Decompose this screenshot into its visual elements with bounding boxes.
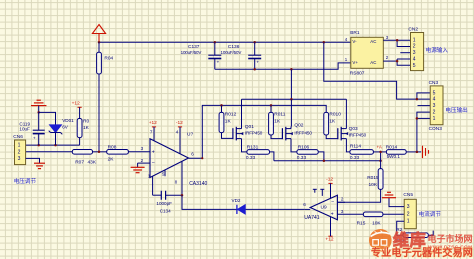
power VCC arrow — [98, 34, 100, 43]
diode VD2 — [236, 205, 238, 214]
svg-text:R04: R04 — [104, 56, 113, 62]
svg-text:3: 3 — [141, 146, 144, 151]
wire Q01 drain drop — [241, 99, 243, 126]
wire drain rail — [242, 98, 347, 100]
svg-text:V+: V+ — [352, 60, 358, 65]
svg-text:+12: +12 — [72, 101, 80, 107]
junction top rail to CN3 drop — [323, 41, 326, 44]
resistor R15 — [363, 212, 383, 217]
watermark logo ball — [369, 229, 392, 252]
junction drain rail at Q02 — [290, 98, 293, 101]
junction top rail at C137 — [214, 41, 217, 44]
wire ground to VD01 anode — [39, 112, 56, 125]
pin 5 stub U? — [164, 170, 166, 176]
resistor R2 — [403, 233, 428, 238]
svg-text:R114: R114 — [350, 144, 361, 150]
svg-text:CN6: CN6 — [13, 134, 23, 140]
wire reference node — [26, 144, 80, 146]
wire source common rail — [274, 160, 381, 162]
svg-text:CN5: CN5 — [403, 192, 413, 198]
wire Q03 drain drop — [345, 99, 347, 126]
junction top rail at C136 — [253, 41, 256, 44]
svg-text:3: 3 — [407, 204, 410, 210]
svg-text:2: 2 — [407, 211, 410, 217]
svg-text:2: 2 — [413, 44, 416, 50]
wire CN5 pin3 to ground — [389, 198, 404, 207]
junction U? output at riser — [201, 157, 203, 159]
resistor R015 — [378, 169, 383, 190]
svg-text:1: 1 — [413, 37, 416, 43]
junction C134 node — [181, 194, 184, 197]
resistor R08 — [107, 150, 129, 155]
svg-text:电压输出: 电压输出 — [445, 106, 467, 114]
svg-text:6: 6 — [191, 152, 194, 157]
svg-text:CN3: CN3 — [429, 80, 439, 86]
svg-text:UA741: UA741 — [304, 215, 320, 221]
resistor R012 — [221, 105, 223, 112]
svg-text:R15: R15 — [357, 220, 366, 226]
junction V+ rail feed to drains — [290, 68, 293, 71]
pin 8 stub U? — [181, 162, 183, 196]
svg-text:-12: -12 — [326, 177, 333, 183]
svg-text:维库: 维库 — [393, 231, 427, 250]
junction C119 bottom — [37, 144, 40, 147]
svg-text:R015: R015 — [367, 175, 379, 181]
svg-text:+: + — [33, 136, 36, 141]
pin 3 UA741 — [337, 213, 363, 215]
connector CN5 — [404, 199, 416, 228]
capacitor C136 — [254, 42, 256, 55]
svg-text:R106: R106 — [298, 145, 310, 151]
resistor R010 — [324, 112, 329, 135]
wire CN3 pins 1-2 tie — [417, 112, 430, 152]
junction output node at CN3 drop — [416, 151, 419, 154]
svg-text:3: 3 — [341, 209, 344, 214]
svg-text:+: + — [331, 212, 334, 218]
svg-text:+12: +12 — [149, 120, 157, 126]
connector CN2 — [411, 33, 424, 71]
svg-text:IRFP450: IRFP450 — [245, 130, 263, 135]
svg-text:6: 6 — [303, 202, 306, 207]
wire CN3 pin3 stub — [418, 105, 431, 107]
svg-text:4: 4 — [433, 97, 436, 103]
svg-text:IRFP450: IRFP450 — [349, 132, 367, 137]
svg-text:−: − — [331, 200, 334, 206]
pin 2 UA741 — [337, 201, 345, 203]
svg-text:10uF: 10uF — [19, 127, 30, 132]
wire V- top rail — [99, 41, 351, 43]
svg-text:1K: 1K — [225, 119, 232, 125]
svg-text:1: 1 — [407, 219, 410, 225]
svg-text:6V: 6V — [62, 125, 69, 130]
junction AC3 at CN2 — [396, 39, 399, 42]
junction AC2 at CN2 — [396, 60, 399, 63]
svg-text:Q01: Q01 — [245, 124, 254, 130]
svg-text:3: 3 — [18, 156, 21, 162]
junction R04 bottom node — [98, 151, 101, 154]
svg-text:5W0.1: 5W0.1 — [387, 154, 401, 159]
svg-text:R131: R131 — [247, 145, 259, 151]
svg-text:7: 7 — [150, 130, 153, 135]
wire CN5 pin1 to R2 — [397, 221, 405, 235]
junction top rail at R04 — [98, 41, 101, 44]
resistor R131 — [242, 141, 247, 152]
svg-text:0.33: 0.33 — [246, 155, 256, 161]
svg-text:2: 2 — [341, 197, 344, 202]
ground output reference (rotated) — [422, 146, 424, 158]
wire V- to CN3 pins 4-5 — [324, 42, 430, 99]
svg-text:1000pF: 1000pF — [156, 201, 172, 206]
svg-text:5: 5 — [433, 90, 436, 96]
svg-text:AC: AC — [370, 60, 376, 65]
svg-text:VD01: VD01 — [62, 118, 74, 123]
transistor Q02 — [281, 128, 283, 139]
svg-text:电流调节: 电流调节 — [419, 210, 442, 218]
connector CN6 — [15, 140, 26, 165]
ground at CN5 pin3 — [382, 197, 396, 199]
svg-text:BR1: BR1 — [350, 30, 360, 36]
svg-text:2: 2 — [141, 158, 144, 163]
svg-text:Q03: Q03 — [349, 126, 358, 132]
svg-text:-12: -12 — [176, 120, 183, 126]
svg-text:2: 2 — [18, 149, 21, 155]
svg-text:4: 4 — [413, 57, 416, 63]
wire V+ rail under caps — [215, 63, 351, 69]
transistor Q01 — [232, 128, 234, 139]
svg-text:1K: 1K — [274, 119, 281, 125]
svg-text:RS807: RS807 — [350, 71, 365, 77]
svg-text:1: 1 — [433, 116, 436, 122]
zener diode VD01 — [50, 125, 62, 132]
junction source rail at R106 — [323, 159, 326, 162]
svg-text:+: + — [152, 149, 155, 155]
wire CN2 pin3 stub — [400, 52, 410, 54]
resistor R106 — [291, 141, 297, 152]
ground at U? pin 2 — [138, 162, 150, 164]
svg-text:R014: R014 — [386, 144, 398, 150]
svg-text:100uF/50V: 100uF/50V — [181, 50, 202, 55]
junction ground split — [37, 111, 40, 114]
junction V+ rail at C136 — [253, 68, 256, 71]
svg-text:CON3: CON3 — [429, 126, 443, 132]
op-amp U1 CA3140 — [150, 139, 189, 178]
resistor R014 — [386, 150, 406, 155]
svg-text:IRFP450: IRFP450 — [294, 131, 312, 136]
pin 1 stub U? — [152, 176, 154, 195]
svg-text:R08: R08 — [108, 145, 117, 151]
wire gate rail from U? output — [189, 105, 327, 158]
capacitor C119 — [38, 112, 40, 130]
svg-text:C134: C134 — [160, 208, 171, 213]
resistor R0 — [79, 107, 81, 118]
svg-text:AC: AC — [370, 39, 376, 44]
svg-text:10K: 10K — [372, 220, 381, 226]
svg-text:1: 1 — [18, 143, 21, 149]
junction gate rail at R011 — [270, 104, 273, 107]
svg-text:3: 3 — [433, 103, 436, 109]
svg-text:R0: R0 — [83, 119, 89, 125]
svg-text:−: − — [152, 161, 155, 167]
capacitor C137 — [214, 42, 216, 55]
svg-text:V-: V- — [352, 39, 357, 44]
ground reference top — [31, 105, 47, 107]
svg-text:1K: 1K — [83, 125, 90, 131]
wire setpoint line — [26, 151, 73, 153]
op-amp U9 UA741 — [310, 195, 337, 220]
svg-text:1K: 1K — [329, 119, 336, 125]
svg-text:R010: R010 — [329, 112, 341, 118]
svg-text:2K: 2K — [108, 157, 115, 163]
svg-text:Q02: Q02 — [294, 122, 303, 128]
wire V+ feed down to drain rail — [290, 69, 292, 99]
junction output sense node +A — [379, 151, 382, 154]
wire Q02 drain drop — [290, 99, 292, 126]
svg-text:R011: R011 — [274, 112, 285, 118]
svg-text:CA3140: CA3140 — [189, 181, 207, 187]
svg-text:+12: +12 — [325, 236, 333, 242]
svg-text:10K: 10K — [369, 182, 378, 188]
wire feedback line to UA741 output — [182, 195, 305, 209]
connector CN3 — [430, 86, 443, 125]
svg-text:专业电子元器件交易网: 专业电子元器件交易网 — [371, 246, 473, 259]
resistor R07 — [72, 150, 92, 155]
svg-text:+: + — [257, 60, 260, 65]
junction source rail at R015 branch — [379, 159, 382, 162]
svg-text:VD2: VD2 — [232, 198, 241, 203]
junction CN3 pin4 branch — [416, 98, 419, 101]
capacitor C134 — [153, 194, 162, 196]
svg-text:电子市场网: 电子市场网 — [428, 233, 473, 244]
bridge rectifier BR1 — [351, 37, 384, 68]
junction gate rail at R012 — [220, 104, 223, 107]
transistor Q03 — [337, 128, 339, 139]
resistor R114 — [346, 141, 350, 152]
svg-text:R012: R012 — [225, 112, 237, 118]
svg-text:4: 4 — [176, 130, 179, 135]
wire BR1 AC2 to CN2 pins 4-5 — [383, 60, 397, 62]
pins 1 and 5 stubs UA741 — [314, 189, 316, 192]
pin 6 UA741 output — [305, 208, 311, 210]
svg-text:U?: U? — [187, 132, 193, 138]
svg-text:100uF/50V: 100uF/50V — [221, 50, 242, 55]
wire CN6 pin3 to ground — [26, 158, 40, 163]
wire R114-R014 node vertical — [380, 152, 382, 169]
resistor R011 — [270, 105, 272, 112]
svg-text:43K: 43K — [88, 159, 97, 165]
ground at CN6 pin3 — [34, 162, 45, 164]
svg-text:3: 3 — [413, 50, 416, 56]
resistor R04 — [98, 42, 100, 52]
wire BR1 AC3 to CN2 pins 1-2 — [383, 39, 410, 41]
svg-text:电压调节: 电压调节 — [14, 177, 37, 185]
svg-text:R07: R07 — [75, 159, 84, 165]
svg-text:2: 2 — [433, 109, 436, 115]
junction VD01 cathode — [54, 144, 57, 147]
svg-text:CN2: CN2 — [408, 26, 418, 32]
svg-text:+A: +A — [377, 145, 382, 150]
svg-text:电源输入: 电源输入 — [426, 46, 449, 54]
svg-text:U9: U9 — [321, 204, 327, 210]
junction CN3 pin1 branch — [416, 117, 419, 120]
svg-text:+: + — [217, 60, 220, 65]
svg-text:5: 5 — [413, 63, 416, 69]
